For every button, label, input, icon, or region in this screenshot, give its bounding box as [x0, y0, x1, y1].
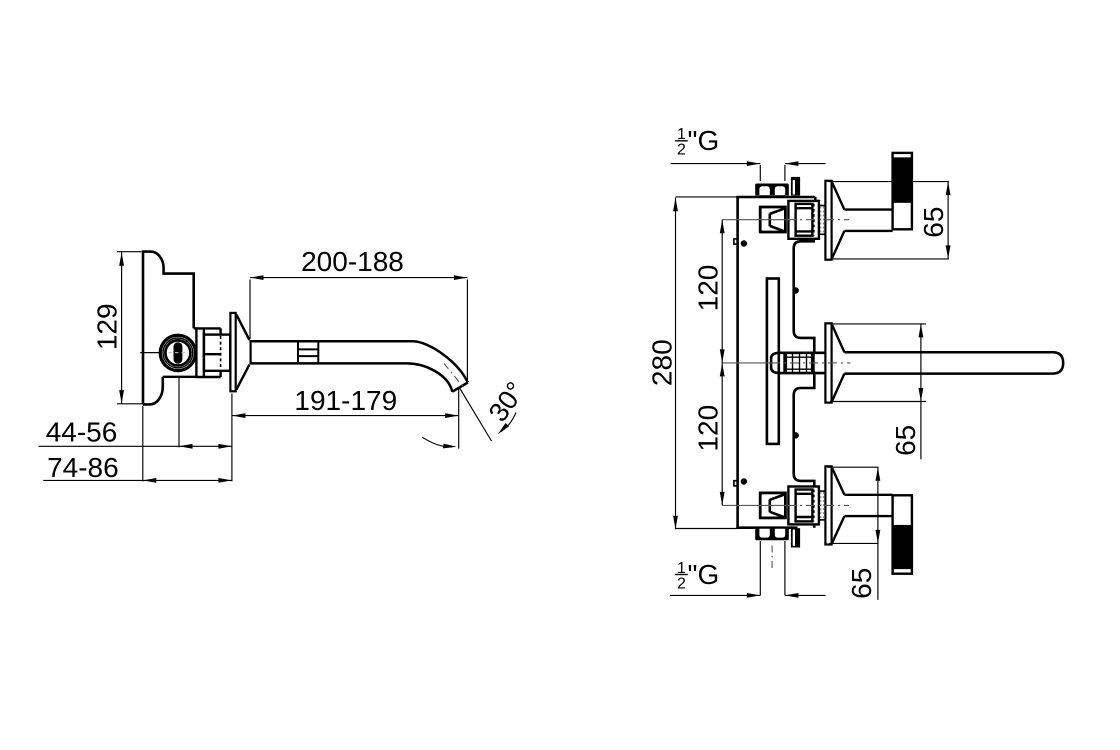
svg-text:65: 65 [890, 425, 921, 456]
svg-text:280: 280 [646, 339, 677, 386]
svg-text:65: 65 [918, 207, 949, 238]
svg-text:65: 65 [846, 568, 877, 599]
svg-text:74-86: 74-86 [47, 452, 119, 483]
svg-text:120: 120 [692, 265, 723, 312]
svg-text:129: 129 [92, 303, 123, 350]
svg-text:2: 2 [677, 142, 686, 159]
svg-text:200-188: 200-188 [301, 246, 404, 277]
svg-text:120: 120 [692, 405, 723, 452]
svg-text:2: 2 [677, 576, 686, 593]
svg-text:"G: "G [688, 559, 720, 590]
svg-text:"G: "G [688, 125, 720, 156]
svg-text:44-56: 44-56 [46, 416, 118, 447]
svg-text:191-179: 191-179 [294, 385, 397, 416]
